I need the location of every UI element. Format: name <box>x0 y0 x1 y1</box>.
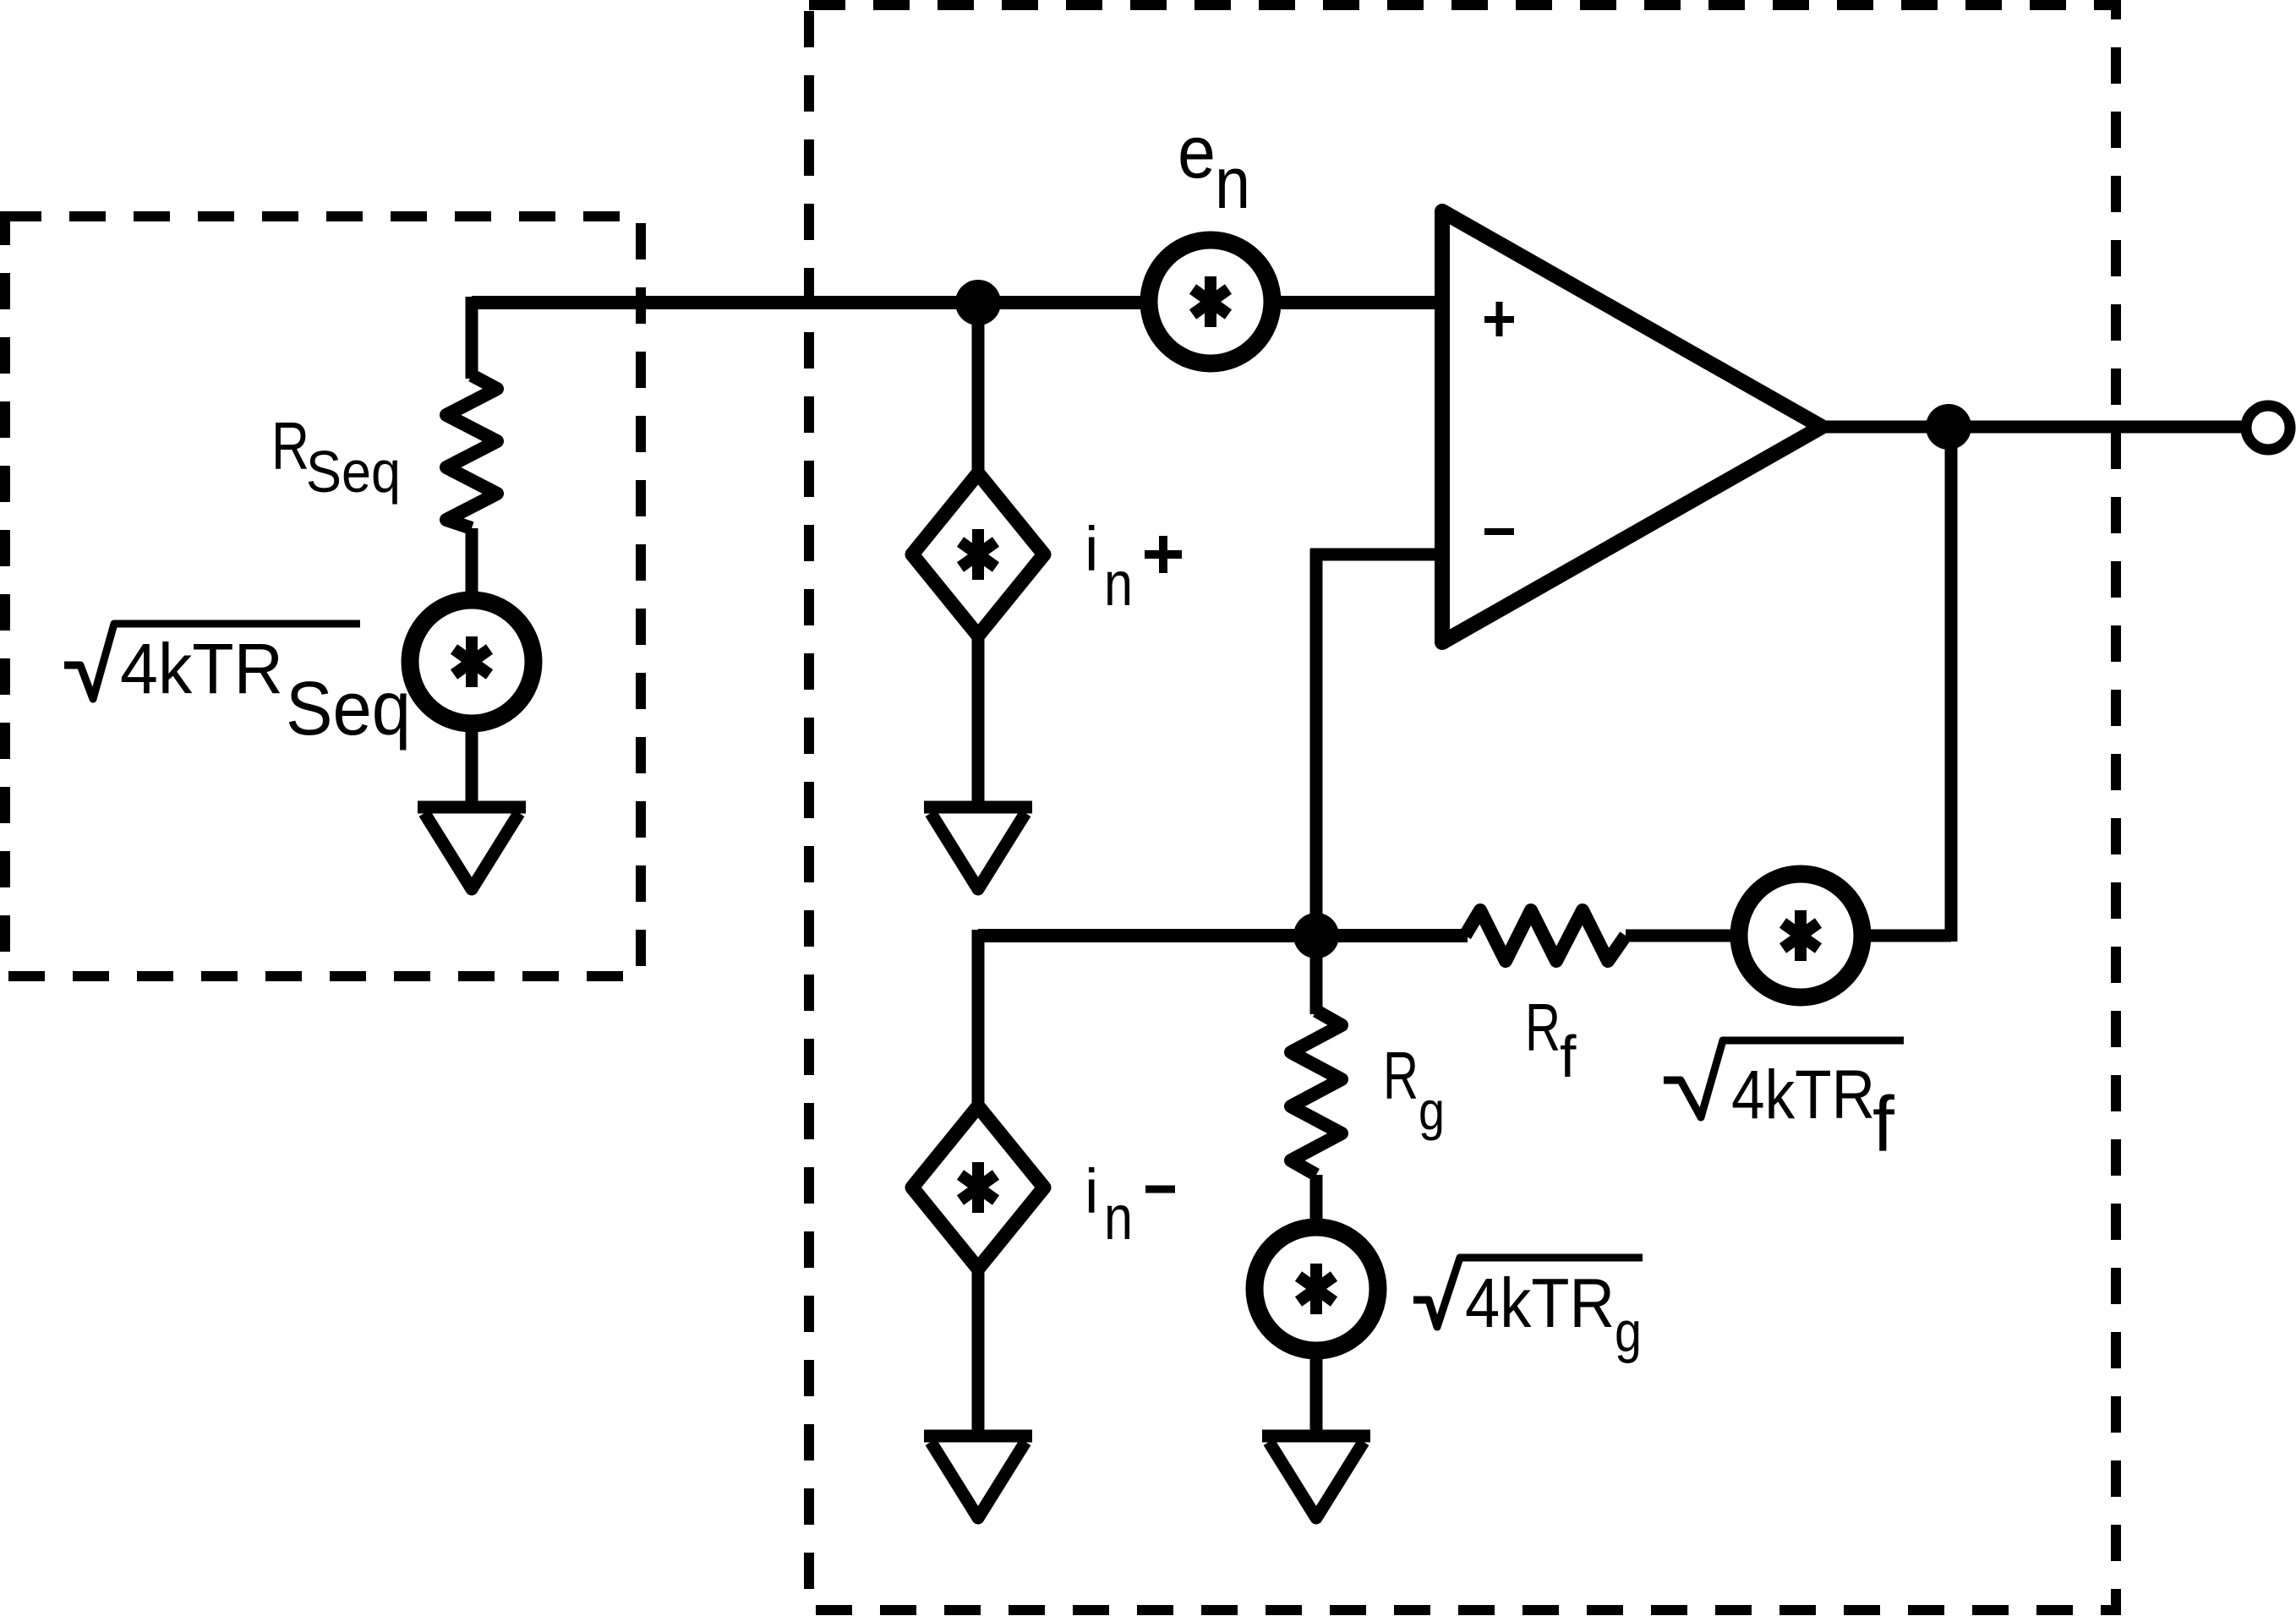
svg-text:R: R <box>1525 990 1561 1065</box>
svg-text:4kTR: 4kTR <box>1731 1056 1875 1133</box>
svg-text:i: i <box>1085 1156 1098 1226</box>
node A junction dot (noninverting net) <box>955 280 1001 325</box>
resistor Rg <box>1291 1011 1342 1175</box>
asterisk in Rg source <box>1298 1264 1334 1314</box>
wire: feedback right vertical <box>1945 427 1958 942</box>
plus sign inside op-amp <box>1484 302 1514 336</box>
voltage noise source en circle <box>1149 240 1272 363</box>
ground (in+) <box>924 807 1032 889</box>
asterisk in en source <box>1193 276 1228 327</box>
svg-text:R: R <box>271 408 309 483</box>
wire: in+ diamond to ground <box>972 636 985 807</box>
op-amp U1 <box>1442 211 1822 642</box>
wire: inverting node horizontal <box>978 929 1468 942</box>
noise source sqrt(4kTRg) circle <box>1255 1227 1378 1351</box>
wire: noise source to ground <box>466 725 478 807</box>
resistor RSeq <box>446 375 497 528</box>
svg-text:g: g <box>1419 1080 1445 1141</box>
wire: op-amp output <box>1822 421 2246 434</box>
noise source sqrt(4kTRSeq) circle <box>410 600 533 723</box>
noise source sqrt(4kTRf) circle <box>1739 874 1862 997</box>
ground (in-) <box>924 1436 1032 1518</box>
svg-text:f: f <box>1872 1080 1894 1168</box>
asterisk in in- diamond <box>960 1162 996 1213</box>
ground (Rg) <box>1262 1436 1370 1518</box>
svg-text:f: f <box>1560 1024 1577 1089</box>
svg-text:Seq: Seq <box>306 439 401 505</box>
wire: feedback vertical to inverting node <box>1310 549 1323 936</box>
svg-text:Seq: Seq <box>286 667 411 751</box>
svg-text:4kTR: 4kTR <box>120 629 283 708</box>
label sqrt(4kTRg) <box>1413 1258 1643 1327</box>
svg-text:g: g <box>1615 1300 1642 1364</box>
label sqrt(4kTRSeq) <box>64 624 360 699</box>
wire: RSeq top vertical <box>466 297 478 379</box>
wire: node B down to Rg <box>1310 936 1323 1014</box>
output terminal <box>2246 406 2290 450</box>
label sqrt(4kTRf) <box>1664 1040 1904 1117</box>
ground (source box) <box>418 807 526 889</box>
wire: Rg to noise source <box>1310 1175 1323 1230</box>
svg-text:n: n <box>1104 549 1133 619</box>
current noise source in+ diamond <box>912 473 1044 636</box>
source dashed box (left) <box>5 216 641 976</box>
resistor Rf <box>1465 910 1626 961</box>
svg-text:i: i <box>1085 514 1098 584</box>
svg-text:e: e <box>1178 110 1216 194</box>
asterisk in Rf source <box>1783 910 1818 961</box>
svg-text:R: R <box>1383 1038 1419 1113</box>
wire: Rf noise source to output node <box>1860 930 1951 942</box>
node B junction dot (inverting node) <box>1293 913 1339 958</box>
wire: down to in- source <box>972 930 985 1110</box>
asterisk in in+ diamond <box>960 529 996 580</box>
node C junction dot (output) <box>1926 404 1971 450</box>
svg-text:n: n <box>1104 1182 1133 1253</box>
op-amp model dashed box (right) <box>809 5 2116 1610</box>
current noise source in- diamond <box>912 1106 1044 1269</box>
wire: inverting input stub <box>1310 549 1442 561</box>
wire: Rg noise source to ground <box>1310 1352 1323 1436</box>
asterisk in RSeq source <box>454 636 489 687</box>
wire: Rf to noise source <box>1626 930 1741 942</box>
svg-text:4kTR: 4kTR <box>1465 1264 1615 1342</box>
svg-text:n: n <box>1215 143 1250 224</box>
minus sign inside op-amp <box>1484 528 1514 535</box>
wire: in- diamond to ground <box>972 1269 985 1436</box>
wire: junction down to in+ source <box>972 303 985 477</box>
wire: top input net from RSeq elbow to op-amp + input <box>472 296 1442 309</box>
wire: RSeq to noise source <box>466 528 478 602</box>
